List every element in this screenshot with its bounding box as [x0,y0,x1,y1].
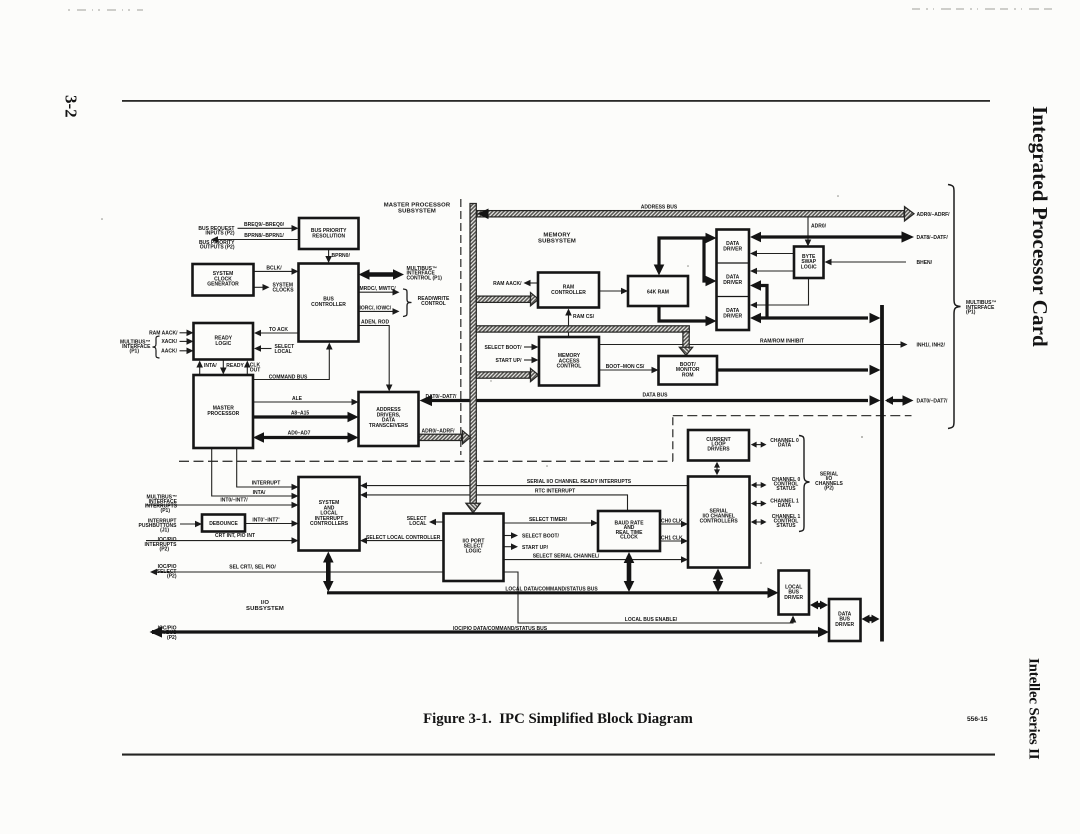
svg-text:Integrated Processor Card: Integrated Processor Card [1028,106,1052,347]
wire BPRN8/-BPRN1/ out of bus priority resolution [215,239,299,241]
wire INT0/-INT7/ multibus interrupts [146,504,294,506]
svg-text:SELECT TIMER/: SELECT TIMER/ [529,517,568,523]
svg-text:MRDC/, MWTC/: MRDC/, MWTC/ [360,286,397,292]
wire BPRN0/ bus priority to bus controller [328,249,330,259]
svg-text:3-2: 3-2 [62,95,81,118]
svg-text:556-15: 556-15 [967,716,988,723]
wire CLK OUT [246,364,248,375]
bottom rule [122,754,995,756]
scan specks [101,195,1038,564]
wire boot/monitor rom to multibus [717,368,868,371]
svg-text:READ/WRITECONTROL: READ/WRITECONTROL [418,296,450,307]
wire SELECT BOOT/ stub out of i/o port select [504,535,514,537]
block BUS CONTROLLER [299,264,359,342]
svg-text:RAM AACK/: RAM AACK/ [149,331,178,337]
svg-text:ADEN, ROD: ADEN, ROD [361,319,389,325]
wire local bus driver to data bus driver double arrow [814,603,824,607]
svg-text:CLKOUT: CLKOUT [250,362,261,373]
wire ram controller to 64k ram [599,290,624,292]
wire START UP/ into memory access control [524,359,535,361]
thick wires [158,237,907,642]
wire CHANNEL 0 CONTROL STATUS [752,484,764,486]
svg-text:CH1 CLK: CH1 CLK [661,535,683,541]
svg-text:BUS PRIORITYRESOLUTION: BUS PRIORITYRESOLUTION [311,228,347,239]
block MASTER PROCESSOR [194,375,254,448]
wire CHANNEL 0 DATA [752,444,764,446]
wire SELECT SERIAL CHANNEL/ [504,559,684,561]
block MEMORY ACCESS CONTROL [539,337,599,386]
wire MRDC/, MWTC/ [359,291,396,293]
svg-text:SELECT SERIAL CHANNEL/: SELECT SERIAL CHANNEL/ [533,553,600,559]
subsystem boundary: serial top dashed [673,415,912,417]
svg-text:64K RAM: 64K RAM [647,289,669,295]
svg-text:SYSTEMCLOCKS: SYSTEMCLOCKS [273,282,295,293]
svg-text:IORC/, IOWC/: IORC/, IOWC/ [360,305,392,311]
subsystem boundary: serial corner vertical dashed [672,416,674,462]
bus branch: to boot/monitor rom vertical [683,332,689,348]
block RAM CONTROLLER [538,273,599,308]
wire SELECT LOCAL stub at i/o port select [433,521,444,523]
wire serial controllers to local bus vertical double arrow [716,573,721,588]
svg-text:INH1/, INH2/: INH1/, INH2/ [917,343,946,349]
wire INT0'-INT7' debounce to controllers [245,523,294,525]
svg-text:ADDRESS BUS: ADDRESS BUS [641,205,678,211]
svg-text:BPRN0/: BPRN0/ [332,253,351,259]
svg-text:INTA/: INTA/ [204,363,217,369]
wire ADEN, ROD to address drivers [359,326,390,388]
bus branch: to memory access control [476,372,530,378]
wire 64k ram top feed [659,238,708,272]
svg-text:Figure 3-1. IPC Simplified Bl: Figure 3-1. IPC Simplified Block Diagram [423,711,693,727]
svg-text:START UP/: START UP/ [522,545,549,551]
wire AACK/ into ready logic [180,350,194,352]
svg-text:ADR0/–ADRF/: ADR0/–ADRF/ [917,212,951,218]
wire DAT8/-DATF/ [758,235,903,238]
svg-text:LOCAL BUS ENABLE/: LOCAL BUS ENABLE/ [625,617,678,623]
svg-text:DEBOUNCE: DEBOUNCE [209,521,238,527]
wire INTERRUPT master processor to interrupt controllers [237,448,294,487]
wire CRT INT, PIO INT [146,540,294,542]
svg-text:SELECT BOOT/: SELECT BOOT/ [485,345,523,351]
svg-text:MEMORYSUBSYSTEM: MEMORYSUBSYSTEM [538,233,576,245]
svg-text:DAT0/–DAT7/: DAT0/–DAT7/ [917,399,949,405]
bus branch: to boot/monitor rom horizontal [476,326,689,332]
svg-text:INT0’–INT7’: INT0’–INT7’ [252,518,280,524]
bus: ADDRESS BUS horizontal [477,211,904,217]
brace READ/WRITE CONTROL [403,289,412,317]
wire INTA/ master processor to interrupt controllers [212,448,294,496]
svg-text:RAM AACK/: RAM AACK/ [493,281,522,287]
svg-text:IOC/PIO DATA/COMMAND/STATUS BU: IOC/PIO DATA/COMMAND/STATUS BUS [453,626,548,632]
svg-text:MEMORYACCESSCONTROL: MEMORYACCESSCONTROL [557,353,582,370]
block BYTE SWAP LOGIC [794,247,824,279]
svg-text:SERIAL I/O CHANNEL READY INTER: SERIAL I/O CHANNEL READY INTERRUPTS [527,479,632,485]
block BAUD RATE AND REAL TIME CLOCK [598,511,660,551]
svg-text:COMMAND BUS: COMMAND BUS [269,375,308,381]
block DATA BUS DRIVER [829,599,861,641]
block ADDRESS DRIVERS, DATA TRANSCEIVERS [359,392,419,446]
block SERIAL I/O CHANNEL CONTROLLERS [688,477,750,568]
wire BOOT-MON CS/ [599,369,654,371]
svg-text:SEL CRT/, SEL PIO/: SEL CRT/, SEL PIO/ [229,564,276,570]
wire READY [222,360,224,371]
wire XACK/ into ready logic [180,340,194,342]
wire CH0 CLK [660,523,684,525]
wire baud rate clock to local bus vertical double arrow [627,557,632,588]
wire SELECT LOCAL stub at ready logic [258,348,272,350]
svg-text:BYTESWAPLOGIC: BYTESWAPLOGIC [801,254,817,270]
wire BREQ9/-BREQ0/ into bus priority resolution [238,227,294,229]
svg-text:AACK/: AACK/ [161,349,177,355]
wire BCLK/ [254,270,294,272]
svg-text:RTC INTERRUPT: RTC INTERRUPT [535,489,575,495]
svg-text:SELECTLOCAL: SELECTLOCAL [275,344,295,355]
wire current loop drivers to serial controllers [716,465,718,473]
wire data bus driver to multibus double arrow [866,617,876,621]
wire TO ACK [258,332,299,334]
svg-text:INTERRUPT: INTERRUPT [252,480,281,486]
svg-text:INTA/: INTA/ [253,490,266,496]
svg-text:I/O PORTSELECTLOGIC: I/O PORTSELECTLOGIC [463,538,485,554]
wire RAM AACK/ stub at ram controller [527,282,539,284]
brace MULTIBUS INTERFACE (P1) left [153,336,160,358]
svg-text:BCLK/: BCLK/ [266,265,282,271]
svg-text:BOOT–MON CS/: BOOT–MON CS/ [606,364,645,370]
wire byte swap to data driver 2 [754,270,794,272]
svg-text:DAT8/–DATF/: DAT8/–DATF/ [917,235,949,241]
wire COMMAND BUS [253,346,329,380]
wire AD0-AD7 thick double [262,436,349,439]
wire interrupt pushbuttons to debounce [180,523,198,525]
svg-text:A8–A15: A8–A15 [291,410,310,416]
svg-text:RAM CS/: RAM CS/ [573,314,595,320]
svg-text:CRT INT, PIO INT: CRT INT, PIO INT [215,533,255,539]
svg-text:READY: READY [226,363,244,369]
wire RTC INTERRUPT [364,495,628,511]
svg-text:AD0–AD7: AD0–AD7 [288,431,311,437]
svg-text:ALE: ALE [292,396,303,402]
wire RAM/ROM INHIBIT to INH1/,INH2/ [599,344,904,346]
svg-text:TO ACK: TO ACK [269,327,288,333]
wire byte swap bottom to data driver 3 [754,278,809,305]
svg-text:XACK/: XACK/ [161,339,177,345]
wire RAM AACK/ into ready logic [180,332,194,334]
svg-text:DATA BUS: DATA BUS [643,393,669,399]
svg-text:START UP/: START UP/ [495,358,522,364]
svg-text:Intellec Series II: Intellec Series II [1026,658,1042,760]
svg-text:LOCAL DATA/COMMAND/STATUS BUS: LOCAL DATA/COMMAND/STATUS BUS [505,586,598,592]
svg-text:ADR0/: ADR0/ [811,223,827,229]
block SYSTEM CLOCK GENERATOR [193,264,254,296]
wire INTA/ ready logic to master processor [199,364,201,375]
svg-text:SELECT BOOT/: SELECT BOOT/ [522,534,560,540]
wire data driver 2 left feed [704,239,708,281]
brace SERIAL I/O CHANNELS (P2) [799,436,810,532]
block LOCAL BUS DRIVER [779,571,810,615]
wire byte swap to data driver 1 [754,253,794,255]
wire MULTIBUS INTERFACE CONTROL thick double arrow [367,272,395,277]
wire data driver 2 right to bus [758,286,767,319]
wire SELECT LOCAL CONTROLLER [364,540,444,542]
wire SELECT BOOT/ into memory access control [524,346,535,348]
wire SELECT TIMER/ [504,522,594,524]
wire 64k ram bottom to data driver 3 [659,306,708,321]
wire DAT0/-DAT7/ right of vertical bus [887,399,907,402]
svg-text:SELECTLOCAL: SELECTLOCAL [407,516,427,527]
block BUS PRIORITY RESOLUTION [299,218,359,249]
arrowheads for thin wires [150,225,908,623]
block DATA DRIVER 3 divider [717,296,750,298]
brace MULTIBUS INTERFACE (P1) big right [948,185,961,429]
svg-text:READYLOGIC: READYLOGIC [215,336,233,347]
svg-text:SELECT LOCAL CONTROLLER: SELECT LOCAL CONTROLLER [366,535,441,541]
svg-text:DAT0/–DAT7/: DAT0/–DAT7/ [426,394,458,400]
wire RAM CS/ [568,312,570,337]
wire A8-A15 thick [253,415,349,418]
wire LOCAL DATA/COMMAND/STATUS BUS [327,591,770,594]
wire SYSTEM CLOCKS stub [254,286,265,288]
svg-text:RAM/ROM INHIBIT: RAM/ROM INHIBIT [760,339,804,345]
scan speckle top dotted marks [68,9,143,11]
wire START UP/ stub out of i/o port select [504,546,514,548]
svg-text:ADR0/–ADRF/: ADR0/–ADRF/ [422,429,456,435]
block CURRENT LOOP DRIVERS [688,430,749,461]
wire CH1 CLK [660,540,684,542]
svg-text:CH0 CLK: CH0 CLK [661,518,683,524]
wire SERIAL I/O CHANNEL READY INTERRUPTS [364,485,688,487]
wire ALE [253,401,354,403]
block I/O PORT SELECT LOGIC [444,514,504,582]
wire DATA BUS [428,399,868,402]
bus arrowheads [905,207,915,221]
svg-text:BHEN/: BHEN/ [917,260,933,266]
wire IOC/PIO DATA/COMMAND/STATUS BUS [158,630,820,633]
wire data driver 3 right to multibus [758,316,868,319]
block READY LOGIC [194,323,254,360]
wire interrupt controllers to local bus vertical double arrow [326,556,331,588]
svg-text:BREQ9/–BREQ0/: BREQ9/–BREQ0/ [244,222,285,228]
top rule [122,100,990,102]
block BOOT/MONITOR ROM [659,356,718,385]
block DATA DRIVER 1 [717,230,750,331]
wire BHEN/ into byte swap logic [828,261,906,263]
bus: ADR0/-ADRF/ from address drivers [419,434,462,440]
block SYSTEM AND LOCAL INTERRUPT CONTROLLERS [299,477,360,551]
block 64K RAM [628,276,688,306]
bus branch: to ram controller [476,296,530,302]
svg-text:BUS PRIORITYOUTPUTS (P2): BUS PRIORITYOUTPUTS (P2) [199,240,235,251]
arrowheads for thick wires [150,231,915,637]
wire CHANNEL 1 DATA [752,503,764,505]
wire LOCAL BUS ENABLE/ [504,572,794,623]
wire CHANNEL 1 CONTROL STATUS [752,521,764,523]
wire multibus vertical data bus [880,305,884,642]
svg-text:BPRN8/–BPRN1/: BPRN8/–BPRN1/ [244,233,284,239]
wire SEL CRT/, SEL PIO/ [153,571,444,573]
svg-text:INT0/–INT7/: INT0/–INT7/ [220,498,248,504]
wire ADR0/ down to byte swap logic [807,217,809,243]
subsystem boundary: master processor vertical dashed [460,199,462,455]
wire IORC/, IOWC/ [359,310,396,312]
block DATA DRIVER 2 divider [717,262,750,264]
subsystem boundary: horizontal dashed I/O [179,460,673,462]
block DEBOUNCE [202,515,245,532]
bus: vertical address bus trunk [470,204,476,506]
